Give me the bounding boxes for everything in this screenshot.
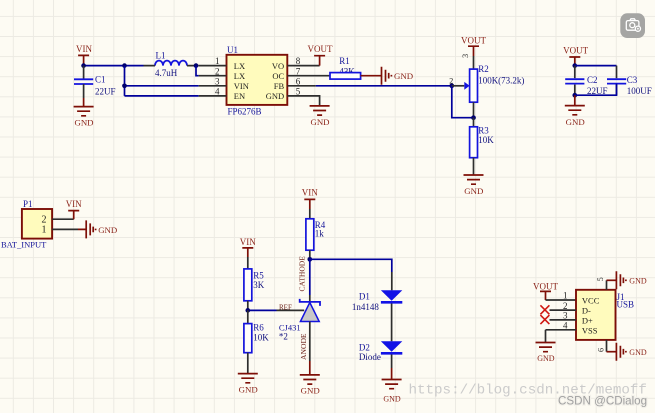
node pin1/pin2 junction <box>194 63 199 68</box>
potentiometer R2 <box>464 64 524 102</box>
svg-text:VIN: VIN <box>66 199 82 209</box>
svg-text:VOUT: VOUT <box>563 45 588 55</box>
pin 2 (USB) <box>550 301 577 311</box>
svg-text:OC: OC <box>272 71 284 81</box>
svg-text:1: 1 <box>215 56 220 66</box>
svg-text:C1: C1 <box>95 75 106 85</box>
svg-text:GND: GND <box>464 186 483 196</box>
svg-text:6: 6 <box>296 76 301 86</box>
svg-text:CATHODE: CATHODE <box>298 256 307 292</box>
wire wiper <box>452 85 465 87</box>
svg-text:22UF: 22UF <box>587 86 608 96</box>
power VOUT (above C2) <box>563 45 588 65</box>
ground below C2 <box>565 95 585 127</box>
svg-text:6: 6 <box>596 348 605 352</box>
svg-text:R6: R6 <box>253 323 264 333</box>
svg-text:2: 2 <box>449 77 453 86</box>
svg-text:C2: C2 <box>587 75 598 85</box>
pin 5 (USB shield top) <box>596 277 617 290</box>
ground below pin 5 <box>310 106 330 127</box>
svg-text:CSDN @CDialog: CSDN @CDialog <box>558 395 647 408</box>
svg-text:GND: GND <box>537 354 555 363</box>
svg-text:1k: 1k <box>315 229 325 239</box>
svg-text:3: 3 <box>215 76 220 86</box>
node R2/R3 junction <box>471 115 476 120</box>
wire P1 pin2 to VIN <box>52 218 74 220</box>
capacitor C2 <box>565 66 607 96</box>
svg-text:VIN: VIN <box>302 187 318 197</box>
svg-text:3: 3 <box>461 54 470 58</box>
power VOUT (above R2) <box>461 36 486 57</box>
shunt regulator U CJ431 <box>279 299 320 342</box>
ground (sideways, pin 5) <box>616 271 646 289</box>
no-ERC cross pin 2 <box>540 305 549 314</box>
node R5/R6 junction <box>245 308 250 313</box>
svg-text:R3: R3 <box>478 126 489 136</box>
svg-text:22UF: 22UF <box>95 86 116 96</box>
svg-text:L1: L1 <box>156 50 166 60</box>
ground below C1 <box>74 98 94 128</box>
diode D2 Diode <box>359 341 402 362</box>
svg-text:7: 7 <box>296 66 301 76</box>
svg-text:FB: FB <box>274 81 285 91</box>
svg-text:100K(73.2k): 100K(73.2k) <box>478 75 524 85</box>
svg-text:4: 4 <box>215 87 220 97</box>
svg-text:GND: GND <box>383 395 401 404</box>
svg-text:VO: VO <box>272 61 284 71</box>
svg-text:VIN: VIN <box>76 44 92 54</box>
svg-text:VOUT: VOUT <box>533 282 558 292</box>
ground below R6 <box>238 374 258 395</box>
svg-text:VIN: VIN <box>240 237 256 247</box>
svg-text:1n4148: 1n4148 <box>352 302 380 312</box>
wire VIN node to L1 <box>84 65 144 67</box>
wire R1 to ground <box>361 75 382 77</box>
diode D1 1n4148 <box>352 272 402 312</box>
wire REF to R5/R6 node <box>248 309 304 311</box>
svg-text:*2: *2 <box>279 332 288 342</box>
camera overlay icon <box>620 13 645 38</box>
capacitor C3 <box>607 66 652 96</box>
wire anode down <box>309 322 311 375</box>
ground below R3 <box>464 175 484 196</box>
svg-text:D+: D+ <box>582 316 593 326</box>
pin 2 <box>199 66 227 76</box>
svg-text:5: 5 <box>596 277 605 281</box>
pin 5 <box>287 87 319 106</box>
svg-text:5: 5 <box>296 87 301 97</box>
pin 4 <box>199 87 227 97</box>
pin 3 <box>199 76 227 86</box>
wire VSS to ground <box>545 330 547 343</box>
svg-text:D2: D2 <box>359 342 370 352</box>
svg-text:GND: GND <box>98 225 117 235</box>
svg-text:GND: GND <box>629 276 647 285</box>
node C2 bottom junction <box>572 93 577 98</box>
svg-text:1: 1 <box>563 291 568 301</box>
svg-text:GND: GND <box>629 348 647 357</box>
wire branch down to pins 3,4 <box>125 66 199 96</box>
svg-text:8: 8 <box>296 56 301 66</box>
svg-text:GND: GND <box>394 71 413 81</box>
svg-text:3K: 3K <box>253 280 265 290</box>
power VIN (above R4) <box>302 187 318 209</box>
ground below pin 4 <box>536 343 556 363</box>
connector P1 BAT_INPUT <box>1 199 52 250</box>
svg-text:P1: P1 <box>23 199 33 209</box>
wire C2 top to C3 top <box>575 65 617 67</box>
svg-text:LX: LX <box>234 71 245 81</box>
pin 7 <box>287 66 330 76</box>
svg-text:BAT_INPUT: BAT_INPUT <box>1 239 47 249</box>
svg-text:R2: R2 <box>478 64 489 74</box>
svg-text:10K: 10K <box>253 333 269 343</box>
pin 6 <box>287 76 316 86</box>
pin 4 (USB) <box>546 321 577 331</box>
resistor R5 <box>244 257 265 310</box>
wire R2 bottom <box>473 102 475 118</box>
svg-text:D1: D1 <box>359 292 370 302</box>
wire D2 to ground <box>391 355 393 380</box>
svg-text:D-: D- <box>582 306 591 316</box>
svg-text:4: 4 <box>563 321 568 331</box>
inductor L1 <box>155 50 187 77</box>
svg-text:R1: R1 <box>339 56 350 66</box>
power VIN (above R5) <box>240 237 256 257</box>
power VOUT (U1 pin 8) <box>308 44 333 65</box>
svg-text:USB: USB <box>617 300 635 310</box>
ground (sideways, P1 pin1) <box>78 220 117 238</box>
svg-text:U1: U1 <box>227 45 238 55</box>
wire cathode <box>309 259 311 295</box>
svg-text:VIN: VIN <box>234 81 249 91</box>
pin 8 <box>287 56 319 66</box>
svg-text:3: 3 <box>563 311 568 321</box>
pin 6 (USB shield bottom) <box>596 340 616 352</box>
node branch junction <box>122 63 127 68</box>
ground (sideways, pin 6) <box>616 343 646 361</box>
op-amp U1 FP6276B <box>227 45 288 117</box>
svg-text:GND: GND <box>566 117 585 127</box>
wire P1 pin1 to ground <box>52 228 78 230</box>
svg-text:4.7uH: 4.7uH <box>155 68 178 78</box>
svg-text:VOUT: VOUT <box>461 36 486 46</box>
ground below CJ431 anode <box>300 375 320 396</box>
power VIN (at P1) <box>66 199 82 219</box>
wire D1 to D2 <box>391 304 393 342</box>
svg-text:2: 2 <box>215 66 220 76</box>
svg-text:ANODE: ANODE <box>299 333 308 360</box>
capacitor C1 <box>74 66 116 98</box>
wire C2 bottom to C3 bottom <box>575 84 617 96</box>
wire VOUT to USB pin1 <box>546 299 577 301</box>
svg-text:GND: GND <box>74 118 93 128</box>
no-ERC cross pin 3 <box>540 315 549 324</box>
wire L1 to pin1 <box>144 65 199 67</box>
svg-text:GND: GND <box>266 91 284 101</box>
resistor R4 <box>306 209 326 259</box>
resistor R6 <box>244 310 269 373</box>
svg-text:FP6276B: FP6276B <box>228 107 262 117</box>
svg-text:GND: GND <box>301 386 320 396</box>
svg-text:10K: 10K <box>478 135 494 145</box>
node FB junction <box>449 83 454 88</box>
svg-text:VSS: VSS <box>582 325 598 335</box>
wire VOUT to R2 <box>473 56 475 69</box>
node pin3 junction <box>122 83 127 88</box>
svg-text:GND: GND <box>310 117 329 127</box>
svg-text:LX: LX <box>234 61 245 71</box>
svg-text:2: 2 <box>563 301 568 311</box>
node VIN junction <box>81 63 86 68</box>
wire FB net <box>316 85 452 87</box>
svg-text:1: 1 <box>42 225 47 236</box>
svg-text:VOUT: VOUT <box>308 44 333 54</box>
pin 3 (USB) <box>550 311 577 321</box>
wire FB junction down to R2/R3 node <box>452 86 474 118</box>
ground (sideways, right of R1) <box>382 67 414 85</box>
wire junction down to pin2 <box>196 66 199 76</box>
svg-text:GND: GND <box>239 384 258 394</box>
svg-text:100UF: 100UF <box>627 86 652 96</box>
wire junction to D1 <box>310 259 392 272</box>
svg-text:EN: EN <box>234 91 245 101</box>
power VOUT (USB) <box>533 282 558 301</box>
svg-text:VCC: VCC <box>582 296 600 306</box>
svg-text:Diode: Diode <box>359 352 381 362</box>
svg-text:C3: C3 <box>627 75 638 85</box>
ground below D2 <box>382 380 402 404</box>
node C2 top junction <box>572 63 577 68</box>
power VIN (top-left) <box>76 44 92 66</box>
connector J1 USB <box>576 290 634 340</box>
pin 1 <box>199 56 227 66</box>
resistor R3 <box>470 118 495 175</box>
node cathode junction <box>307 257 312 262</box>
resistor R1 <box>330 56 361 79</box>
